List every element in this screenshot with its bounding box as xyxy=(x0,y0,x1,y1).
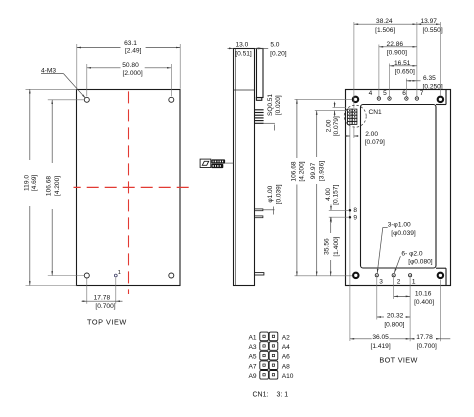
pcb corner step top-right xyxy=(436,104,446,106)
svg-text:106.68: 106.68 xyxy=(290,161,297,182)
svg-text:[4.200]: [4.200] xyxy=(299,161,306,181)
svg-text:13.0: 13.0 xyxy=(235,42,248,49)
dim 20.32 xyxy=(377,316,384,318)
dim 36.05 xyxy=(350,338,372,340)
pin A9 cell xyxy=(260,371,269,380)
svg-text:A10: A10 xyxy=(282,373,294,380)
pin A2 cell xyxy=(269,332,278,341)
dim 119.0 extension lines xyxy=(26,88,77,90)
dim 5.0 xyxy=(256,47,263,49)
svg-text:[φ0.039]: [φ0.039] xyxy=(391,230,416,237)
mounting hole top-right xyxy=(169,97,174,102)
svg-text:TOP VIEW: TOP VIEW xyxy=(87,318,127,327)
svg-text:1: 1 xyxy=(412,279,416,286)
svg-text:6.35: 6.35 xyxy=(423,75,436,82)
module body outline (bottom view) xyxy=(346,90,451,286)
svg-text:SQ0.51: SQ0.51 xyxy=(267,94,274,116)
svg-text:[2.000]: [2.000] xyxy=(123,70,143,77)
extension line bottom row xyxy=(295,275,353,277)
pin A6 cell xyxy=(269,351,278,360)
centerline horizontal (red) xyxy=(74,186,193,188)
mounting hole bottom-right (bot) xyxy=(437,272,445,280)
CN1 connector block xyxy=(348,109,357,124)
dim 2.00 row (left, rotated) xyxy=(334,102,336,108)
pin 9 (bot) xyxy=(349,216,352,219)
svg-text:3: 3 xyxy=(379,279,383,286)
svg-text:BOT VIEW: BOT VIEW xyxy=(379,356,417,365)
svg-text:16.51: 16.51 xyxy=(394,60,411,67)
dim 4.00 extensions xyxy=(329,209,348,211)
pin 8 (bot) xyxy=(349,209,352,212)
svg-text:A1: A1 xyxy=(249,335,257,342)
svg-text:[0.700]: [0.700] xyxy=(417,343,437,350)
svg-text:[1.419]: [1.419] xyxy=(371,343,391,350)
svg-text:[0.550]: [0.550] xyxy=(423,27,443,34)
svg-text:6: 6 xyxy=(402,90,406,97)
svg-text:A8: A8 xyxy=(282,363,290,370)
svg-text:[4.69]: [4.69] xyxy=(31,175,38,192)
mounting hole bottom-left xyxy=(84,273,89,278)
dim 63.1 extension lines xyxy=(76,44,78,89)
dim 35.56 xyxy=(330,217,332,233)
svg-text:35.56: 35.56 xyxy=(323,238,330,255)
pin A7 cell xyxy=(260,361,269,370)
case inner edge line xyxy=(234,48,236,285)
svg-text:[0.650]: [0.650] xyxy=(395,69,415,76)
svg-text:[0.079]: [0.079] xyxy=(333,116,340,136)
svg-text:9: 9 xyxy=(353,214,357,221)
svg-text:2: 2 xyxy=(397,279,401,286)
dim 10.16 xyxy=(394,295,410,297)
dim 2.00 row (left, rotated) extensions xyxy=(333,106,347,108)
dia 1.00 leader xyxy=(263,209,275,211)
svg-text:4.00: 4.00 xyxy=(325,188,332,201)
dim 50.80 extension lines xyxy=(86,64,88,96)
dim 22.86 xyxy=(379,46,417,48)
pin 9 (side view) xyxy=(255,216,263,218)
svg-text:[1.506]: [1.506] xyxy=(375,27,395,34)
pin A3 cell xyxy=(260,342,269,351)
svg-text:4: 4 xyxy=(369,90,373,97)
svg-text:[4.200]: [4.200] xyxy=(54,176,61,196)
dim 16.51 xyxy=(390,65,417,67)
svg-text:50.80: 50.80 xyxy=(122,62,139,69)
pin A10 cell xyxy=(269,371,278,380)
pcb corner step bottom-right xyxy=(436,267,446,269)
svg-text:22.86: 22.86 xyxy=(387,41,404,48)
pin 4 xyxy=(377,97,380,100)
centerline vertical (red) xyxy=(128,86,130,294)
flatness feature control frame xyxy=(200,159,211,167)
extension lines bottom dims xyxy=(393,278,395,300)
dim 106.68 (top view) extension lines xyxy=(48,99,85,101)
svg-text:A7: A7 xyxy=(249,363,257,370)
svg-text:3: 1: 3: 1 xyxy=(277,392,289,399)
pin 8 (side view) xyxy=(255,209,263,211)
SQ0.51 leader xyxy=(264,122,275,124)
bottom pin (side view) xyxy=(255,273,264,275)
mounting hole bottom-left (bot) xyxy=(352,272,360,280)
svg-text:[0.079]: [0.079] xyxy=(365,139,385,146)
dim 13.97 xyxy=(417,23,441,25)
svg-text:106.68: 106.68 xyxy=(46,176,53,197)
svg-text:[0.800]: [0.800] xyxy=(384,322,404,329)
pin A1 cell xyxy=(260,332,269,341)
case outline (side view) xyxy=(234,49,255,286)
dim 13.0 xyxy=(228,47,234,49)
pin 7 xyxy=(415,97,418,100)
svg-text:[0.700]: [0.700] xyxy=(95,303,115,310)
svg-text:A3: A3 xyxy=(249,344,257,351)
svg-text:8: 8 xyxy=(353,207,357,214)
svg-text:φ1.00: φ1.00 xyxy=(267,185,274,202)
dim 4.00 xyxy=(330,205,332,211)
svg-text:[0.039]: [0.039] xyxy=(275,184,282,204)
dim 2.00 col pitch xyxy=(347,135,350,137)
pin A5 cell xyxy=(260,351,269,360)
svg-text:A4: A4 xyxy=(282,344,290,351)
svg-text:5.0: 5.0 xyxy=(270,42,279,49)
svg-text:[0.20]: [0.20] xyxy=(270,50,287,57)
dim 119.0 xyxy=(29,89,31,160)
svg-text:119.0: 119.0 xyxy=(23,175,30,191)
pin 1 xyxy=(409,274,412,277)
pin 3 xyxy=(375,274,378,277)
svg-text:5: 5 xyxy=(383,90,387,97)
mounting hole bottom-right xyxy=(169,273,174,278)
pin 2 xyxy=(392,274,395,277)
svg-text:6- φ2.0: 6- φ2.0 xyxy=(401,250,422,257)
svg-text:[0.020]: [0.020] xyxy=(275,95,282,115)
connector pins block (side view) xyxy=(255,110,264,124)
svg-text:17.78: 17.78 xyxy=(416,334,433,341)
pcb outline (bottom view) xyxy=(361,105,437,269)
svg-text:A6: A6 xyxy=(282,354,290,361)
svg-text:A5: A5 xyxy=(249,354,257,361)
svg-text:10.16: 10.16 xyxy=(415,291,432,298)
mounting hole top-right (bot) xyxy=(437,96,445,104)
dim 99.97 xyxy=(316,111,318,157)
dim 17.78 (top view) xyxy=(82,300,87,302)
dim 17.78 (top view) extension lines xyxy=(86,279,88,304)
extension lines top dims xyxy=(353,22,355,108)
pcb edge (side view) xyxy=(257,49,264,98)
pin A4 cell xyxy=(269,342,278,351)
dim 6.35 xyxy=(406,80,417,82)
svg-text:A9: A9 xyxy=(249,373,257,380)
module body outline (top view) xyxy=(77,90,181,286)
pin 1 marker xyxy=(114,274,117,277)
extension line to hole (106.68 top) xyxy=(295,98,353,100)
svg-text:[3.936]: [3.936] xyxy=(318,161,325,181)
svg-text:[φ0.080]: [φ0.080] xyxy=(408,259,433,266)
svg-text:[0.400]: [0.400] xyxy=(414,299,434,306)
svg-text:3-φ1.00: 3-φ1.00 xyxy=(388,222,411,229)
svg-text:17.78: 17.78 xyxy=(94,294,111,301)
svg-text:1: 1 xyxy=(118,270,121,276)
dim 106.68 (bot) xyxy=(296,99,298,158)
svg-text:38.24: 38.24 xyxy=(376,18,393,25)
svg-text:[0.51]: [0.51] xyxy=(235,50,252,57)
CN1 dashed circle xyxy=(344,105,366,127)
svg-text:[1.400]: [1.400] xyxy=(333,236,340,256)
dim 63.1 xyxy=(77,47,121,49)
case flange line xyxy=(233,89,254,91)
svg-text:2.00: 2.00 xyxy=(365,131,378,138)
mounting hole top-left xyxy=(84,97,89,102)
svg-text:A2: A2 xyxy=(282,335,290,342)
flatness leader xyxy=(225,162,233,164)
pcb step xyxy=(256,98,261,101)
svg-text:[0.157]: [0.157] xyxy=(332,185,339,205)
dim 17.78 (bot) xyxy=(410,338,414,340)
svg-text:99.97: 99.97 xyxy=(310,162,317,179)
dim 2.00 col pitch extensions xyxy=(349,126,351,341)
svg-text:2.00: 2.00 xyxy=(326,119,333,132)
svg-text:CN1: CN1 xyxy=(369,109,383,116)
svg-text:CN1:: CN1: xyxy=(253,392,269,399)
svg-text:20.32: 20.32 xyxy=(387,313,404,320)
dim 38.24 xyxy=(354,23,417,25)
svg-text:63.1: 63.1 xyxy=(124,40,137,47)
pin 6 xyxy=(405,97,408,100)
svg-text:[0.900]: [0.900] xyxy=(387,50,407,57)
svg-text:[2.49]: [2.49] xyxy=(125,48,142,55)
svg-text:36.05: 36.05 xyxy=(372,334,389,341)
dim 106.68 (top view) xyxy=(51,100,53,163)
svg-text:13.97: 13.97 xyxy=(420,18,437,25)
pin 5 xyxy=(388,97,391,100)
svg-text:7: 7 xyxy=(420,90,424,97)
mounting hole top-left (bot) xyxy=(352,96,360,104)
dim 50.80 xyxy=(87,67,121,69)
svg-text:[0.250]: [0.250] xyxy=(423,84,443,91)
pin A8 cell xyxy=(269,361,278,370)
